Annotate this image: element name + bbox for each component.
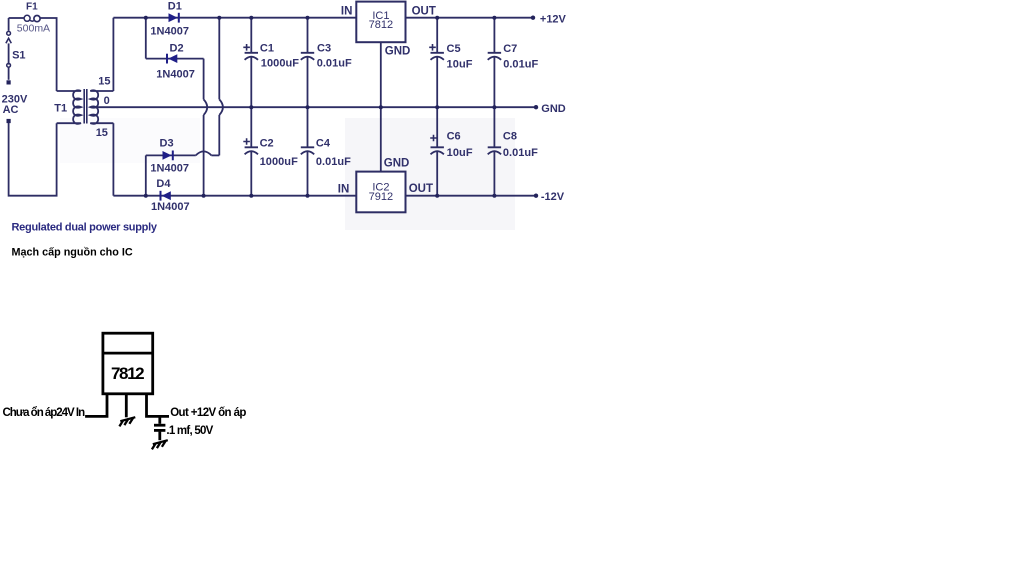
svg-text:10uF: 10uF [447,59,473,71]
svg-text:D4: D4 [156,178,171,190]
svg-text:C2: C2 [260,138,274,150]
svg-text:C4: C4 [316,138,331,150]
svg-text:500mA: 500mA [17,23,50,35]
svg-text:C8: C8 [503,130,517,142]
svg-text:OUT: OUT [412,6,436,18]
svg-text:GND: GND [541,103,566,115]
svg-text:+12V: +12V [540,13,567,25]
svg-text:OUT: OUT [409,183,433,195]
svg-text:C5: C5 [447,43,461,55]
svg-text:0.01uF: 0.01uF [503,59,538,71]
svg-text:IN: IN [338,184,350,196]
svg-text:15: 15 [96,127,108,139]
svg-text:GND: GND [384,157,410,169]
svg-text:Mạch cấp nguồn cho IC: Mạch cấp nguồn cho IC [12,246,133,258]
svg-text:1N4007: 1N4007 [151,201,190,213]
svg-text:D3: D3 [160,138,174,150]
svg-text:0: 0 [104,95,110,107]
svg-text:Chưa ổn áp24V In: Chưa ổn áp24V In [3,407,86,419]
svg-text:0.01uF: 0.01uF [503,147,538,159]
svg-text:AC: AC [3,104,19,116]
svg-text:GND: GND [385,45,411,57]
svg-text:S1: S1 [12,50,25,62]
svg-text:D2: D2 [170,43,184,55]
svg-text:-12V: -12V [541,191,565,203]
svg-text:10uF: 10uF [447,147,473,159]
svg-text:1000uF: 1000uF [260,156,298,168]
svg-text:1N4007: 1N4007 [150,162,189,174]
svg-text:15: 15 [98,76,110,88]
svg-text:0.01uF: 0.01uF [317,58,352,70]
svg-text:.1 mf, 50V: .1 mf, 50V [166,425,213,437]
svg-text:Regulated dual power supply: Regulated dual power supply [12,222,158,234]
svg-text:7912: 7912 [369,191,393,203]
svg-text:IN: IN [341,6,353,18]
svg-text:C7: C7 [503,43,517,55]
svg-text:1000uF: 1000uF [261,58,299,70]
svg-text:D1: D1 [168,0,182,12]
svg-text:1N4007: 1N4007 [156,69,195,81]
svg-text:C3: C3 [317,43,331,55]
svg-text:1N4007: 1N4007 [150,26,189,38]
svg-text:0.01uF: 0.01uF [316,156,351,168]
svg-text:7812: 7812 [369,19,393,31]
svg-text:7812: 7812 [111,364,145,383]
svg-text:C6: C6 [447,130,461,142]
svg-text:F1: F1 [26,2,38,13]
svg-text:C1: C1 [260,43,274,55]
svg-text:Out +12V ốn áp: Out +12V ốn áp [170,407,246,419]
svg-text:T1: T1 [54,103,67,115]
